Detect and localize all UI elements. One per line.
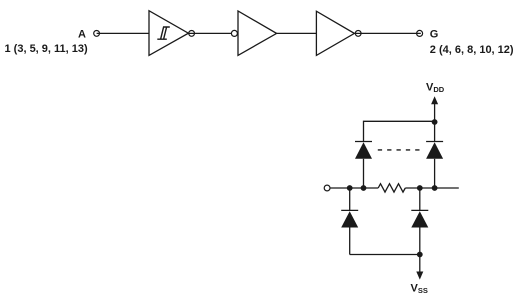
output bubble of U3 — [355, 31, 361, 37]
svg-text:VDD: VDD — [426, 82, 445, 95]
pin numbers 2 (4, 6, 8, 10, 12) — [430, 44, 514, 56]
junction dot left upper — [361, 185, 367, 191]
diode D3 lower left — [341, 188, 358, 255]
wire U1 to U2 — [188, 32, 231, 34]
node A input label — [78, 29, 86, 41]
power VDD label — [426, 82, 445, 95]
pin numbers 1 (3, 5, 9, 11, 13) — [5, 43, 89, 55]
svg-text:G: G — [430, 29, 439, 41]
wire U3 to G — [354, 32, 420, 34]
svg-text:2 (4, 6, 8, 10, 12): 2 (4, 6, 8, 10, 12) — [430, 44, 514, 56]
wire VDD top rail — [364, 121, 435, 141]
output bubble of U1 — [189, 31, 195, 37]
svg-text:A: A — [78, 29, 86, 41]
dashed line between D1 and D2 — [378, 149, 421, 151]
power VSS label — [411, 283, 428, 296]
terminal G — [417, 30, 423, 36]
input node terminal — [324, 185, 330, 191]
op-amp U3 buffer triangle — [316, 11, 354, 55]
junction dot at VDD rail — [432, 119, 438, 125]
svg-text:VSS: VSS — [411, 283, 428, 296]
diode D2 upper right — [426, 142, 443, 189]
op-amp U1 schmitt trigger inverter triangle — [149, 11, 188, 56]
power VDD arrow — [431, 96, 438, 122]
op-amp U2 buffer triangle — [238, 11, 277, 55]
junction dot bottom rail — [417, 252, 423, 258]
wire U2 to U3 — [277, 32, 317, 34]
junction dot left lower — [347, 185, 353, 191]
diode D1 upper left — [355, 142, 372, 189]
power VSS arrow — [416, 255, 423, 280]
node G output label — [430, 29, 439, 41]
wire bottom rail — [350, 254, 420, 256]
wire resistor to right rail end — [405, 187, 459, 189]
svg-text:1 (3, 5, 9, 11, 13): 1 (3, 5, 9, 11, 13) — [5, 43, 89, 55]
wire input to resistor — [330, 187, 378, 189]
wire A to U1 — [97, 32, 149, 34]
junction dot right upper — [432, 185, 438, 191]
resistor R1 — [378, 184, 405, 192]
hysteresis symbol inside U1 — [157, 27, 170, 39]
input bubble of U2 — [231, 30, 237, 36]
terminal A — [94, 31, 100, 37]
diode D4 lower right — [411, 188, 428, 255]
junction dot right lower — [417, 185, 423, 191]
